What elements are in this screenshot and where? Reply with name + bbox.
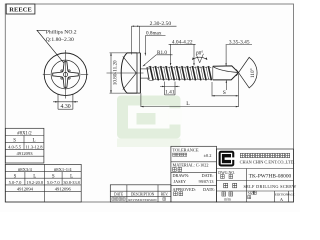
washer inner circle: [51, 60, 80, 89]
svg-text:S: S: [14, 174, 17, 179]
svg-text:#8X3/4: #8X3/4: [18, 167, 32, 172]
svg-text:S: S: [13, 138, 16, 143]
svg-text:DWG.NO.: DWG.NO.: [218, 171, 235, 175]
svg-text:TK-PW7HB-08000: TK-PW7HB-08000: [249, 174, 292, 180]
svg-text:SELF DRILLING SCREW: SELF DRILLING SCREW: [244, 184, 298, 189]
watermark logo: [117, 96, 182, 148]
svg-text:DATE:: DATE:: [203, 187, 215, 192]
svg-text:4.30: 4.30: [61, 104, 71, 110]
svg-text:CHAN CHIN C.ENT.CO.,LTD.: CHAN CHIN C.ENT.CO.,LTD.: [240, 160, 295, 166]
svg-text:60°: 60°: [196, 52, 203, 57]
cjk 一般公差: [173, 153, 187, 156]
drill body left edge: [212, 66, 214, 80]
company logo: [219, 151, 237, 167]
point angle arc: [249, 57, 257, 87]
screw centerline: [107, 72, 144, 74]
svg-text:Q:1.80–2.30: Q:1.80–2.30: [46, 37, 74, 43]
company block: [217, 149, 294, 202]
svg-text:L: L: [70, 174, 73, 179]
svg-text:99/07/13: 99/07/13: [199, 179, 214, 184]
vertical centerline: [65, 50, 67, 99]
svg-text:#8X1/2: #8X1/2: [17, 132, 32, 137]
head washer face lines: [136, 53, 138, 93]
dim L: [140, 93, 142, 107]
recess corner circles: [68, 70, 70, 72]
svg-text:A: A: [280, 197, 284, 202]
page border: [5, 4, 293, 202]
svg-text:4912096: 4912096: [55, 187, 72, 192]
unit cell: [222, 192, 233, 196]
svg-text:Phillips NO.2: Phillips NO.2: [46, 30, 77, 36]
point angle fan lines: [236, 57, 249, 88]
svg-text:DESCRIPTION: DESCRIPTION: [131, 193, 155, 197]
svg-text:S: S: [52, 174, 55, 179]
svg-text:REECE: REECE: [9, 7, 32, 14]
cjk company name: [240, 153, 289, 157]
recess section lines: [123, 56, 137, 89]
thread flank strokes: [147, 66, 212, 80]
svg-text:1.41: 1.41: [165, 89, 175, 95]
drill flute curve: [213, 67, 238, 73]
svg-text:REVISED/VERSION: REVISED/VERSION: [128, 198, 157, 202]
svg-text:±0.2: ±0.2: [204, 153, 212, 158]
svg-text:10.80-11.20: 10.80-11.20: [113, 60, 119, 85]
revision row cjk: [112, 198, 125, 201]
drill point body: [213, 66, 239, 80]
svg-text:S: S: [223, 90, 226, 96]
head outer circle: [44, 53, 87, 96]
svg-text:4.0-5.5: 4.0-5.5: [8, 144, 22, 149]
svg-text:m/m: m/m: [224, 198, 231, 202]
dim 1.41 pitch: [164, 82, 166, 96]
svg-text:REV.: REV.: [161, 193, 169, 197]
dim 10.80-11.20: [110, 52, 129, 54]
svg-text:JASEY: JASEY: [174, 179, 187, 184]
svg-text:4912093: 4912093: [16, 151, 33, 156]
shank root lines: [140, 68, 149, 70]
parts table 2: [5, 164, 81, 202]
horizontal centerline ticks: [43, 73, 51, 75]
svg-text:19.2-20.8: 19.2-20.8: [27, 180, 43, 185]
svg-text:L: L: [33, 174, 36, 179]
cjk 材質: [173, 167, 182, 171]
svg-text:APPROVED:: APPROVED:: [173, 187, 196, 192]
svg-text:L: L: [32, 138, 35, 143]
svg-text:DRAWN:: DRAWN:: [173, 173, 190, 178]
part name row: [224, 183, 237, 187]
svg-text:PAGE: PAGE: [288, 193, 295, 196]
svg-text:5.0-7.0: 5.0-7.0: [47, 180, 60, 185]
parts table 1: [5, 128, 44, 163]
svg-text:MATERIAL: C-1022: MATERIAL: C-1022: [173, 162, 209, 167]
svg-text:5.0-7.0: 5.0-7.0: [9, 180, 22, 185]
svg-text:L: L: [186, 101, 190, 107]
svg-text:DATE: DATE: [114, 193, 124, 197]
revision table: [110, 185, 171, 202]
head dome: [121, 53, 137, 93]
REECE label box: [6, 4, 35, 14]
tolerance block: [171, 146, 217, 202]
svg-text:30.8-33.8: 30.8-33.8: [63, 180, 79, 185]
dim S: [211, 82, 213, 96]
svg-text:DATE:: DATE:: [202, 173, 214, 178]
thread crest lines: [147, 66, 211, 68]
phillips recess cross: [53, 62, 79, 88]
dim 4.30: [57, 95, 59, 110]
svg-text:4912094: 4912094: [17, 187, 34, 192]
leader to phillips: [37, 30, 64, 63]
svg-text:11.3-12.8: 11.3-12.8: [25, 144, 43, 149]
cjk 核准: [174, 192, 183, 196]
recess center circle: [63, 72, 67, 76]
svg-text:110°: 110°: [249, 68, 256, 78]
svg-text:TOLERANCE: TOLERANCE: [173, 147, 199, 152]
svg-text:#8X1-1/4: #8X1-1/4: [54, 167, 72, 172]
